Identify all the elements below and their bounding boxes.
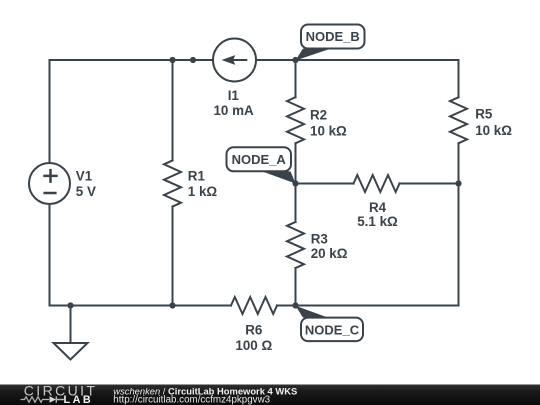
svg-text:20 kΩ: 20 kΩ <box>311 246 348 261</box>
R5 label and value "R5 / 10 kΩ" <box>475 107 512 139</box>
svg-text:1 kΩ: 1 kΩ <box>188 184 218 199</box>
resistor R4 <box>354 175 400 192</box>
junction: R1 bottom at bottom rail <box>169 302 175 308</box>
junction: I1 left terminal <box>190 57 196 63</box>
R2 label and value "R2 / 10 kΩ" <box>310 108 347 139</box>
wire: R1 branch lower lead <box>172 207 174 306</box>
I1 label and value "I1 / 10 mA" <box>213 88 254 118</box>
voltage source V1 <box>29 163 70 204</box>
wire: R2 upper lead from NODE_B <box>295 60 297 97</box>
wire: left rail top segment (top-left corner to V1 top terminal) <box>50 60 214 163</box>
resistor R3 <box>287 222 304 268</box>
wire: top rail from I1 right terminal through NODE_B to right rail <box>256 59 459 61</box>
svg-text:R5: R5 <box>475 107 493 122</box>
svg-text:5.1 kΩ: 5.1 kΩ <box>357 214 398 229</box>
ground <box>54 306 88 360</box>
wire: right rail upper segment (top corner to R5) <box>458 60 460 97</box>
svg-text:NODE_A: NODE_A <box>232 152 287 167</box>
current source I1 <box>213 39 256 82</box>
svg-text:V1: V1 <box>76 168 93 183</box>
wire: R3 upper lead from NODE_A <box>295 184 297 223</box>
wire: R2 lower lead to NODE_A <box>295 143 297 183</box>
svg-text:R4: R4 <box>369 200 387 215</box>
wire: R1 branch upper lead <box>172 60 174 161</box>
svg-text:R6: R6 <box>245 322 262 337</box>
svg-text:10 mA: 10 mA <box>213 103 254 118</box>
node NODE_C flag <box>296 306 364 341</box>
resistor R6 <box>231 297 277 314</box>
footer attribution text <box>113 386 297 405</box>
R6 label and value "R6 / 100 Ω" <box>235 322 272 353</box>
resistor R1 <box>164 161 181 207</box>
svg-text:R2: R2 <box>310 108 327 123</box>
wire: R6 right lead to NODE_C <box>277 305 296 307</box>
R3 label and value "R3 / 20 kΩ" <box>311 231 348 261</box>
R4 label and value "R4 / 5.1 kΩ" <box>357 200 398 229</box>
node NODE_B flag <box>296 25 365 61</box>
junction: ground at bottom rail <box>67 302 73 308</box>
wire: NODE_A to R4 left lead <box>296 183 354 185</box>
svg-text:R3: R3 <box>311 231 328 246</box>
wire: right rail lower segment (R5 to bottom-right corner to NODE_C) <box>296 143 459 305</box>
R1 label and value "R1 / 1 kΩ" <box>188 169 218 199</box>
footer bar <box>0 385 540 405</box>
wire: R3 lower lead to NODE_C <box>295 268 297 306</box>
junction: node C <box>292 302 298 308</box>
junction: R1 top at top rail <box>169 57 175 63</box>
node NODE_A flag <box>227 147 296 183</box>
svg-text:10 kΩ: 10 kΩ <box>475 123 512 138</box>
svg-text:NODE_B: NODE_B <box>306 29 360 44</box>
svg-text:R1: R1 <box>188 169 206 184</box>
svg-text:10 kΩ: 10 kΩ <box>310 123 347 138</box>
wire: left rail bottom segment (V1 bottom terminal to bottom-left corner to R6) <box>50 204 232 306</box>
wire: R4 right lead to right rail <box>400 183 459 185</box>
svg-text:LAB: LAB <box>64 394 94 405</box>
svg-text:5 V: 5 V <box>76 184 96 199</box>
svg-text:I1: I1 <box>228 88 240 103</box>
svg-text:http://circuitlab.com/ccfmz4pk: http://circuitlab.com/ccfmz4pkpgvw3 <box>113 395 270 405</box>
svg-text:NODE_C: NODE_C <box>305 322 360 337</box>
junction: R4 right at right rail <box>455 180 461 186</box>
junction: node A <box>292 180 298 186</box>
V1 label and value "V1 / 5 V" <box>76 168 96 199</box>
footer CircuitLab logo wordmark <box>21 383 98 405</box>
svg-text:100 Ω: 100 Ω <box>235 338 272 353</box>
resistor R5 <box>450 97 467 143</box>
junction: node B <box>292 57 298 63</box>
resistor R2 <box>287 97 304 143</box>
